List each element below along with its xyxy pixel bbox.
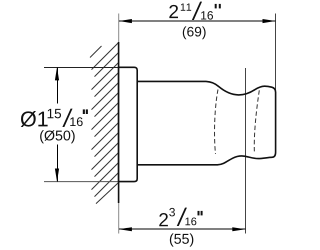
left dimension line [57,67,59,103]
flange (wall plate) [119,67,138,181]
16 [40,130,75,143]
/ [201,11,213,20]
(69) [215,4,217,8]
bottom dimension arrowhead right [232,227,245,231]
extension line right end of holder [275,14,277,91]
flange diameter extension line top [44,66,119,68]
top dimension arrowhead left [119,19,132,23]
top dimension line [119,20,276,22]
O1 [48,109,61,118]
2 [169,208,175,217]
bottom dimension arrowhead left [119,227,132,231]
top dimension arrowhead right [263,19,276,23]
(55) [198,211,200,216]
hidden bore dashed right [254,90,259,153]
top dimension text 2 11/16" (69) [169,2,220,40]
holder body outline [137,81,275,164]
flange diameter extension line bottom [44,181,119,183]
extension line left (wall) up to top dimension [118,14,120,43]
extension line left (wall) down to bottom dimension [118,203,120,234]
left dimension arrowhead down [55,169,59,182]
16 [183,26,206,39]
16 [170,233,194,246]
hidden bore dashed left [215,90,218,155]
extension line groove center [244,68,246,234]
left dimension arrowhead up [55,67,59,80]
bottom dimension text 2 3/16" (55) [159,208,202,247]
15 [62,109,72,127]
11 [192,2,202,20]
wall hatching [90,43,119,204]
(O50) [83,109,85,114]
3 [177,208,187,226]
2 [181,3,191,10]
left dimension text O1 15/16" (O50) [21,109,88,144]
/ [185,218,196,226]
/ [70,117,82,126]
wall face line [118,42,120,203]
bottom dimension line [119,228,246,230]
